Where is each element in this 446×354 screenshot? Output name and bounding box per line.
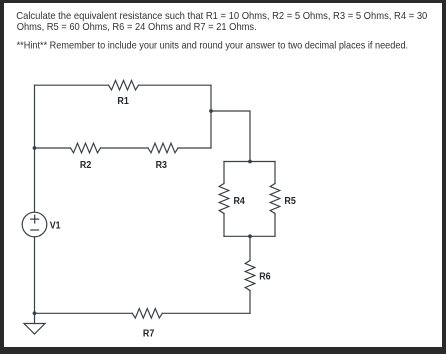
svg-text:Calculate the equivalent resis: Calculate the equivalent resistance such… xyxy=(16,11,427,22)
svg-text:R3: R3 xyxy=(156,159,168,171)
wire: parallel block bottom bar xyxy=(224,235,275,237)
wire: R3 right lead to rail xyxy=(178,147,211,149)
junction node bottom of R4/R5 parallel block xyxy=(248,234,252,238)
wire: jumper from node to parallel block xyxy=(211,111,250,162)
junction node at R2 branch / left rail xyxy=(33,146,37,150)
wire: top-left horizontal lead to R1 xyxy=(35,84,109,86)
svg-text:R7: R7 xyxy=(143,328,155,340)
svg-text:R4: R4 xyxy=(234,195,246,207)
resistor R7 xyxy=(132,309,162,319)
ground symbol xyxy=(24,324,45,335)
resistor R6 xyxy=(245,261,255,291)
svg-text:R6: R6 xyxy=(259,270,271,282)
wire: bottom left segment to R7 xyxy=(35,312,133,314)
junction node top of R4/R5 parallel block xyxy=(248,160,252,164)
resistor R2 xyxy=(71,143,101,153)
resistor R3 xyxy=(148,143,178,153)
svg-text:R5: R5 xyxy=(284,195,296,207)
svg-text:R2: R2 xyxy=(80,159,92,171)
svg-text:Ohms, R5 = 60 Ohms, R6 = 24 Oh: Ohms, R5 = 60 Ohms, R6 = 24 Ohms and R7 … xyxy=(17,22,257,33)
wire: R2 to R3 xyxy=(101,147,149,149)
wire: R4 bottom lead xyxy=(223,214,225,237)
wire: R5 top lead xyxy=(274,162,276,184)
wire: R6 top lead xyxy=(249,236,251,260)
V1 plus sign xyxy=(30,215,39,224)
resistor R4 xyxy=(219,184,229,214)
wire: R2 left lead xyxy=(35,147,71,149)
wire: R1 to top-right corner xyxy=(139,84,212,86)
V1 minus sign xyxy=(30,229,39,231)
wire: R4 top lead xyxy=(223,162,225,184)
wire: R5 bottom lead xyxy=(274,214,276,237)
wire: left rail lower (V1 bottom to ground) xyxy=(34,237,36,324)
svg-text:**Hint** Remember to include y: **Hint** Remember to include your units … xyxy=(17,41,409,52)
resistor R1 xyxy=(109,80,139,90)
svg-text:V1: V1 xyxy=(50,220,61,232)
wire: left rail upper (top corner down to V1 top) xyxy=(34,85,36,212)
wire: parallel block top bar xyxy=(224,161,275,163)
voltage source V1 circle xyxy=(22,212,47,237)
wire: right rail of R1/R2R3 loop xyxy=(210,85,212,148)
svg-text:R1: R1 xyxy=(117,95,129,107)
junction node bottom-left / ground tap xyxy=(33,311,37,315)
wire: R6 bottom lead to bottom-right corner xyxy=(249,291,251,314)
junction node on right rail (top branch tap) xyxy=(209,109,213,113)
resistor R5 xyxy=(270,184,280,214)
wire: R7 to bottom-right corner xyxy=(162,312,250,314)
